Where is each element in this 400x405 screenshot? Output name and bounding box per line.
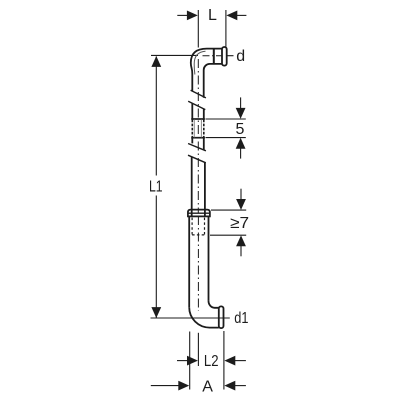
pipe vertical centerline lower: [197, 216, 199, 311]
cut zone left inner line: [193, 120, 195, 138]
top elbow outer contour: [191, 49, 222, 92]
L1 top extension line: [151, 54, 198, 56]
L1 dimension line upper segment: [155, 57, 157, 176]
pipe segment between break1 and cut zone right edge: [203, 109, 205, 119]
coupling ring mid line: [188, 212, 209, 214]
socket left edge: [188, 216, 190, 307]
coupling ring: [188, 210, 210, 217]
dimension L2 right arrow: [224, 356, 246, 366]
pipe segment between break1 and cut zone left edge: [191, 103, 193, 118]
cut zone top line: [191, 118, 205, 120]
socket right edge: [208, 216, 210, 301]
svg-text:5: 5: [235, 121, 244, 138]
svg-text:d: d: [236, 48, 245, 65]
svg-text:L: L: [208, 7, 217, 24]
pipe lower straight left edge: [191, 157, 193, 216]
dimension L top left extension line: [197, 10, 199, 48]
inserted pipe dashed left edge: [191, 218, 193, 235]
svg-text:≥7: ≥7: [230, 215, 249, 232]
L1 bottom arrow: [151, 307, 161, 318]
top elbow inner contour: [204, 64, 222, 98]
bottom outlet end bead: [219, 306, 224, 328]
dimension 5 bottom extension line: [206, 137, 246, 139]
dimension >=7 top arrow: [236, 189, 246, 210]
bottom left extension line A: [189, 332, 191, 390]
top horizontal centerline in socket: [203, 55, 222, 57]
svg-text:d1: d1: [234, 310, 248, 327]
top socket end bead: [222, 47, 227, 66]
dimension L top right extension line: [225, 10, 227, 47]
dimension 5 top extension line: [206, 118, 246, 120]
inserted pipe dashed end line: [192, 234, 204, 236]
bottom elbow inner contour: [209, 301, 219, 308]
dimension >=7 top extension line: [211, 209, 246, 211]
d leader line: [228, 55, 234, 57]
break 2 pipe stub left edge: [191, 138, 193, 144]
pipe lower straight right edge: [204, 163, 206, 217]
break 1 upper cut diagonal: [191, 90, 206, 98]
top elbow inner wall line: [194, 51, 205, 74]
cut zone left dashed edge: [191, 120, 193, 138]
bottom right extension line: [223, 331, 225, 390]
break 1 lower cut diagonal: [188, 101, 205, 109]
dimension 5 bottom arrow: [236, 138, 246, 159]
inserted pipe dashed right edge: [204, 218, 206, 235]
L1 dimension line lower segment: [155, 196, 157, 318]
bottom elbow outer contour: [189, 307, 219, 327]
bottom centerline extension line L2: [197, 333, 199, 366]
dimension L right arrow: [226, 11, 246, 21]
svg-text:A: A: [202, 379, 213, 396]
break 2 lower cut diagonal: [188, 155, 206, 163]
cut zone bottom line: [191, 137, 205, 139]
break 2 pipe stub right edge: [203, 138, 205, 150]
cut zone right dashed edge: [203, 120, 205, 138]
svg-text:L2: L2: [204, 353, 219, 370]
dimension >=7 bottom extension line: [210, 234, 246, 236]
svg-text:L1: L1: [149, 179, 163, 196]
top socket step line: [213, 49, 215, 64]
cut zone right inner line: [200, 120, 202, 138]
break 2 upper cut diagonal: [188, 144, 206, 151]
dimension 5 top arrow: [236, 97, 246, 118]
L1 top arrow: [151, 56, 161, 67]
L1 bottom extension and d1 centerline: [151, 317, 230, 319]
dimension A left arrow: [151, 381, 189, 391]
dimension L left arrow: [177, 11, 198, 21]
dimension >=7 bottom arrow: [236, 235, 246, 256]
pipe vertical centerline upper: [197, 59, 199, 213]
dimension L2 left arrow: [177, 356, 198, 366]
dimension A right arrow: [224, 381, 246, 391]
